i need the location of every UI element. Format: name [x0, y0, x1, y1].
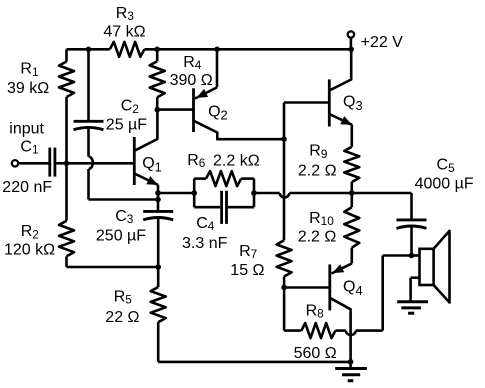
svg-text:C2: C2	[121, 98, 139, 116]
svg-text:47 kΩ: 47 kΩ	[103, 23, 145, 40]
svg-text:Q3: Q3	[343, 94, 363, 113]
svg-text:4000 µF: 4000 µF	[415, 175, 474, 192]
svg-text:390 Ω: 390 Ω	[170, 72, 213, 89]
svg-text:R2: R2	[21, 223, 39, 241]
svg-text:R7: R7	[239, 243, 257, 261]
svg-text:C5: C5	[437, 157, 456, 175]
svg-text:R6: R6	[187, 152, 206, 170]
svg-text:3.3 nF: 3.3 nF	[182, 235, 228, 252]
svg-text:250 µF: 250 µF	[96, 227, 146, 244]
svg-text:22 Ω: 22 Ω	[105, 309, 139, 326]
svg-text:Q2: Q2	[208, 103, 228, 122]
svg-text:Q1: Q1	[142, 155, 162, 174]
svg-text:input: input	[9, 120, 44, 137]
svg-text:15 Ω: 15 Ω	[230, 262, 264, 279]
svg-text:2.2 Ω: 2.2 Ω	[298, 228, 337, 245]
svg-text:39 kΩ: 39 kΩ	[7, 80, 49, 97]
svg-text:C4: C4	[196, 215, 215, 233]
svg-text:R1: R1	[20, 61, 38, 79]
svg-text:R5: R5	[114, 288, 133, 306]
svg-text:220 nF: 220 nF	[2, 179, 52, 196]
svg-text:R3: R3	[116, 5, 135, 23]
svg-text:C3: C3	[115, 208, 134, 226]
svg-text:R4: R4	[183, 54, 202, 72]
svg-text:560 Ω: 560 Ω	[294, 345, 337, 362]
svg-text:R8: R8	[306, 303, 325, 321]
svg-text:C1: C1	[20, 139, 38, 157]
svg-text:R10: R10	[309, 210, 334, 228]
svg-text:R9: R9	[309, 143, 327, 161]
svg-text:25 µF: 25 µF	[106, 117, 147, 134]
svg-text:2.2 Ω: 2.2 Ω	[298, 162, 337, 179]
svg-text:+22 V: +22 V	[361, 34, 404, 51]
svg-text:Q4: Q4	[343, 278, 363, 297]
svg-text:2.2 kΩ: 2.2 kΩ	[213, 152, 260, 169]
svg-text:120 kΩ: 120 kΩ	[4, 242, 55, 259]
